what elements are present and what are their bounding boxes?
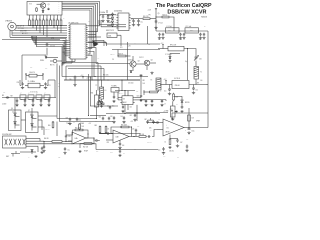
capacitor C26 xyxy=(48,98,50,104)
IC U3 xyxy=(120,96,134,105)
svg-text:T1: T1 xyxy=(200,72,202,74)
capacitor C36 xyxy=(94,138,100,142)
svg-text:C19: C19 xyxy=(3,92,6,94)
svg-text:R45 100K: R45 100K xyxy=(121,124,127,126)
svg-text:1N: 1N xyxy=(115,19,117,21)
svg-text:C55: C55 xyxy=(130,107,133,109)
svg-text:C31 104: C31 104 xyxy=(128,83,133,85)
wire J3 row2 xyxy=(26,140,44,142)
ground G42 xyxy=(162,152,165,155)
capacitor C63 xyxy=(164,85,171,93)
svg-text:2N2222: 2N2222 xyxy=(139,57,144,59)
diode D2 xyxy=(40,56,58,62)
svg-text:C9: C9 xyxy=(112,59,114,61)
svg-text:R31: R31 xyxy=(143,80,146,82)
svg-text:C5 104: C5 104 xyxy=(50,46,55,48)
ground G1 xyxy=(101,20,104,23)
wire U3 left xyxy=(118,92,120,100)
wire to LM386 xyxy=(152,130,157,137)
wire drv h xyxy=(112,49,160,51)
U1 label xyxy=(68,22,78,24)
wire J3 row4 xyxy=(26,146,38,152)
resistor R10 xyxy=(56,15,58,26)
+12V T2 xyxy=(161,43,164,47)
diode D12 xyxy=(31,124,37,128)
wire mid h1 xyxy=(62,63,101,91)
transformer T1 xyxy=(194,61,202,85)
svg-text:100u: 100u xyxy=(192,131,195,133)
wire U1 right A xyxy=(88,20,126,46)
svg-text:1N914: 1N914 xyxy=(40,60,44,62)
svg-text:Q5: Q5 xyxy=(158,13,160,15)
U2 label xyxy=(114,10,122,13)
wire U4B out xyxy=(132,136,139,137)
svg-text:RX: RX xyxy=(2,95,4,97)
J1 pin labels xyxy=(17,24,28,35)
ground G35 xyxy=(192,91,195,94)
svg-text:+8V: +8V xyxy=(97,58,99,60)
svg-text:VOX: VOX xyxy=(29,4,32,6)
svg-text:+12: +12 xyxy=(81,75,84,77)
svg-text:10K: 10K xyxy=(82,126,84,128)
svg-text:Q6: Q6 xyxy=(11,108,13,110)
diode D11 xyxy=(31,115,37,119)
capacitor C50 xyxy=(99,116,105,120)
wire U4A out xyxy=(86,137,95,138)
svg-text:R42 10K: R42 10K xyxy=(83,146,88,148)
title line 3 xyxy=(201,16,207,18)
wire U4A in xyxy=(66,135,72,142)
svg-text:RFC 1mH: RFC 1mH xyxy=(170,44,176,46)
resistor R35 xyxy=(188,115,194,121)
resistor R7 xyxy=(46,15,48,26)
wire J1 row3 xyxy=(15,30,31,32)
capacitor C35 xyxy=(64,147,70,151)
ground G39 xyxy=(187,131,190,134)
svg-text:R47 10K: R47 10K xyxy=(147,142,152,144)
wire bus2 xyxy=(60,121,114,123)
svg-text:+: + xyxy=(185,130,186,132)
svg-text:10u: 10u xyxy=(158,150,160,152)
svg-text:.047: .047 xyxy=(163,156,166,158)
capacitor C43 xyxy=(110,116,115,120)
wire LPF down xyxy=(207,31,209,113)
svg-text:47p: 47p xyxy=(10,95,12,97)
wire J1 drops xyxy=(10,30,12,38)
capacitor C39 xyxy=(119,140,125,147)
svg-text:C35: C35 xyxy=(58,157,61,159)
ground G8 xyxy=(179,37,186,40)
svg-text:DSB/CW XCVR: DSB/CW XCVR xyxy=(167,10,206,16)
svg-text:D15: D15 xyxy=(181,96,184,98)
wire U1 right D xyxy=(88,42,160,44)
capacitor C16 xyxy=(194,56,202,61)
svg-text:+12: +12 xyxy=(161,43,164,45)
wire pot row xyxy=(90,105,118,106)
svg-text:10u: 10u xyxy=(177,157,179,159)
svg-text:10u: 10u xyxy=(112,106,115,108)
ground G33 xyxy=(160,104,163,107)
svg-text:1N: 1N xyxy=(115,15,117,17)
ground G34 xyxy=(168,92,171,95)
svg-text:R40 3K: R40 3K xyxy=(44,138,49,140)
diode D8 xyxy=(130,71,132,73)
svg-text:1K: 1K xyxy=(49,18,51,20)
capacitor C13 xyxy=(158,33,164,41)
svg-text:10K: 10K xyxy=(176,97,178,99)
ground G17 xyxy=(31,104,34,107)
label mid2 xyxy=(103,75,108,77)
ground G15 xyxy=(15,104,18,107)
svg-text:Y6 4MHz: Y6 4MHz xyxy=(111,86,117,88)
resistor R21 xyxy=(162,14,174,31)
title line 2 xyxy=(167,10,206,16)
svg-text:SB: SB xyxy=(58,86,60,88)
diode D9 xyxy=(14,113,20,117)
resistor R5 xyxy=(39,15,41,26)
label mid1 xyxy=(86,77,91,79)
capacitor C62 xyxy=(130,114,137,121)
svg-text:1K: 1K xyxy=(28,18,30,20)
svg-text:560: 560 xyxy=(199,39,201,41)
svg-text:10K: 10K xyxy=(192,118,194,120)
svg-text:100K: 100K xyxy=(110,152,113,154)
svg-text:R48: R48 xyxy=(96,151,99,153)
wire U3 right xyxy=(135,97,145,100)
+12V T5 xyxy=(170,109,173,113)
svg-text:L1 1.1uH: L1 1.1uH xyxy=(166,26,172,28)
wire psu out xyxy=(189,84,208,86)
wire U1 right G xyxy=(88,55,140,80)
capacitor C48 xyxy=(66,117,72,121)
svg-text:1K: 1K xyxy=(56,18,58,20)
svg-text:C16: C16 xyxy=(199,59,202,61)
wire U3 top xyxy=(122,80,128,96)
svg-text:C56: C56 xyxy=(136,91,139,93)
svg-text:10u: 10u xyxy=(68,150,70,152)
svg-text:1K: 1K xyxy=(53,18,55,20)
svg-text:R50: R50 xyxy=(48,125,51,127)
wire filter xyxy=(2,97,56,99)
ground G28 xyxy=(118,146,121,149)
crystal Y3 xyxy=(28,93,34,99)
svg-text:104: 104 xyxy=(146,111,148,113)
svg-text:104: 104 xyxy=(148,104,150,106)
inductor RFC1 xyxy=(168,44,184,50)
resistor R46 xyxy=(138,134,147,138)
svg-text:Q1: Q1 xyxy=(48,4,50,6)
resistor R6 xyxy=(42,15,44,26)
capacitor C33 xyxy=(65,135,71,142)
label rxaf xyxy=(84,150,88,153)
ground G32 xyxy=(144,104,147,107)
svg-text:L2 1.1uH: L2 1.1uH xyxy=(186,26,192,28)
svg-text:T50-2: T50-2 xyxy=(190,30,193,32)
wire J1 row4 xyxy=(12,32,32,34)
wire crow xyxy=(140,100,166,101)
svg-text:U4B: U4B xyxy=(116,136,119,138)
svg-text:C21: C21 xyxy=(48,85,51,87)
svg-text:C69 47u: C69 47u xyxy=(169,151,174,153)
potentiometer R30 xyxy=(91,90,102,119)
title line 1 xyxy=(156,3,212,9)
op-amp U4B xyxy=(113,130,129,143)
svg-text:T50-2: T50-2 xyxy=(168,30,171,32)
svg-text:R44: R44 xyxy=(95,121,98,123)
svg-text:+12: +12 xyxy=(170,109,173,111)
svg-text:MV209: MV209 xyxy=(185,102,190,104)
junction PA xyxy=(155,16,156,17)
label mic xyxy=(44,138,49,140)
wire U1 right B xyxy=(88,20,126,37)
resistor R36 xyxy=(165,139,171,145)
wire Q6 wires xyxy=(14,98,16,129)
svg-text:22p: 22p xyxy=(108,22,110,24)
wire Q7 wires xyxy=(31,108,33,131)
svg-text:78L08: 78L08 xyxy=(175,85,180,87)
crystal Y6 xyxy=(111,86,119,92)
+12V T3 xyxy=(81,75,84,79)
diode D7 xyxy=(169,54,180,59)
svg-text:C36 10u: C36 10u xyxy=(45,129,50,131)
ground G19 xyxy=(47,104,50,107)
wire U1 right F xyxy=(88,51,148,76)
wire drv vert xyxy=(127,42,129,80)
svg-text:X2 X3 X4 X5: X2 X3 X4 X5 xyxy=(30,92,38,94)
svg-text:1N: 1N xyxy=(115,26,117,28)
capacitor C46 xyxy=(148,135,151,138)
ground G24 xyxy=(68,122,71,125)
svg-text:22p: 22p xyxy=(102,21,104,23)
junction mic xyxy=(43,141,66,142)
svg-text:104: 104 xyxy=(122,145,124,147)
crystal Y1 xyxy=(25,81,44,88)
capacitor C21 xyxy=(44,82,50,87)
svg-text:10u: 10u xyxy=(163,111,165,113)
connector J3 xyxy=(3,136,27,148)
svg-text:1N: 1N xyxy=(115,22,117,24)
svg-text:R47: R47 xyxy=(145,119,148,121)
svg-text:TP1: TP1 xyxy=(148,14,151,16)
capacitor C55 xyxy=(121,105,132,112)
svg-text:R22 1K: R22 1K xyxy=(119,53,124,55)
resistor R39 xyxy=(79,123,84,130)
ground G31 xyxy=(139,99,142,102)
resistor R50 xyxy=(48,121,54,129)
signal arrow xyxy=(93,40,99,47)
shield box Q7 xyxy=(26,112,39,133)
svg-text:C40: C40 xyxy=(200,80,203,82)
ground G7 xyxy=(158,37,165,40)
transformer T2 xyxy=(96,80,107,99)
svg-text:C62: C62 xyxy=(130,115,133,117)
svg-text:10K: 10K xyxy=(143,83,145,85)
diode D1 xyxy=(42,11,44,13)
capacitor C32 xyxy=(109,106,115,110)
svg-text:+: + xyxy=(166,125,167,127)
capacitor C12 xyxy=(155,20,163,25)
crystal Y5 xyxy=(44,93,50,99)
wire nest xyxy=(32,36,67,66)
svg-text:Q3: Q3 xyxy=(138,61,140,63)
svg-text:R46 10K: R46 10K xyxy=(139,134,144,136)
wire PA vert xyxy=(155,9,157,31)
svg-text:2N3904: 2N3904 xyxy=(128,60,133,62)
svg-text:1K: 1K xyxy=(60,18,62,20)
wire spk feed xyxy=(188,108,190,129)
ground G27 xyxy=(122,121,125,124)
label spkr xyxy=(196,121,200,123)
label sprinkle xyxy=(3,18,206,159)
transistor Q4 xyxy=(136,60,156,71)
svg-text:C45: C45 xyxy=(137,126,140,128)
wire U5 pwr xyxy=(172,113,189,120)
wire boxes right xyxy=(21,116,57,135)
capacitor C22 xyxy=(16,98,18,104)
junction m1 xyxy=(74,79,92,80)
ground G2 xyxy=(106,20,109,23)
svg-text:C22 104: C22 104 xyxy=(110,54,115,56)
capacitor C67 xyxy=(170,138,183,144)
svg-text:R23: R23 xyxy=(120,47,123,49)
svg-text:Q7: Q7 xyxy=(28,110,30,112)
capacitor C1 xyxy=(47,8,49,10)
bus labels xyxy=(66,122,84,125)
resistor R8 xyxy=(49,15,51,26)
resistor R11 xyxy=(60,15,62,26)
ground G30 xyxy=(112,100,115,103)
capacitor C54 xyxy=(113,92,119,100)
svg-text:10u: 10u xyxy=(73,122,75,124)
svg-text:+12V: +12V xyxy=(130,121,133,123)
capacitor C15 xyxy=(199,33,205,41)
capacitor C25 xyxy=(40,98,42,104)
svg-text:NE602: NE602 xyxy=(123,102,127,104)
inductor L2 xyxy=(185,26,199,33)
shield box Q6 xyxy=(9,110,22,131)
resistor R2 xyxy=(28,15,30,26)
wire nest stub xyxy=(22,48,47,83)
svg-text:C50: C50 xyxy=(99,116,102,118)
wire RFC xyxy=(158,47,196,81)
capacitor C28 xyxy=(41,147,43,151)
wire U1 right C xyxy=(94,40,107,46)
junction j2 xyxy=(136,105,137,121)
ground G37 xyxy=(171,118,174,121)
wire mid stub2 xyxy=(35,40,37,45)
capacitor C53 xyxy=(149,120,155,130)
svg-text:TP3: TP3 xyxy=(45,68,48,70)
diode D13 xyxy=(31,150,33,155)
capacitor C52 xyxy=(145,119,149,124)
svg-text:C43: C43 xyxy=(110,116,113,118)
svg-text:10K: 10K xyxy=(149,128,151,130)
capacitor C10 xyxy=(131,18,135,23)
transistor Q3 xyxy=(130,56,140,71)
oscillator module OSC2 xyxy=(107,33,121,46)
connector J4 xyxy=(6,151,36,158)
+12V T4 xyxy=(164,79,167,83)
capacitor C70 xyxy=(185,145,188,152)
capacitor C64 xyxy=(192,85,198,92)
ground G16 xyxy=(23,104,26,107)
label bypass xyxy=(169,151,174,153)
svg-text:Y: Y xyxy=(45,93,46,95)
svg-text:U6 78L08: U6 78L08 xyxy=(174,78,180,80)
filter label xyxy=(2,95,7,106)
wire filter out xyxy=(54,80,56,98)
svg-text:TP2: TP2 xyxy=(30,67,33,69)
svg-text:C70: C70 xyxy=(186,139,189,141)
svg-text:10u: 10u xyxy=(164,91,166,93)
svg-text:1K: 1K xyxy=(46,18,48,20)
capacitor C5 xyxy=(46,43,55,48)
capacitor C51 xyxy=(108,117,110,121)
capacitor C37 xyxy=(99,132,110,134)
capacitor C11 xyxy=(137,19,143,24)
svg-text:C? 104: C? 104 xyxy=(158,22,163,24)
svg-text:+12V: +12V xyxy=(88,123,91,125)
wire U5 out xyxy=(184,127,189,129)
svg-text:U3: U3 xyxy=(123,99,125,101)
wire DDS to PA xyxy=(148,19,157,44)
svg-text:C38: C38 xyxy=(107,142,110,144)
wire J3 row3 xyxy=(26,144,96,150)
resistor R1 xyxy=(36,4,41,12)
connector J1 label xyxy=(5,20,12,23)
wire bundle B1-U1 xyxy=(62,2,100,55)
svg-text:R25 10K: R25 10K xyxy=(103,75,108,77)
wire bus3 xyxy=(90,116,158,157)
ground G9 xyxy=(199,37,206,40)
ground G41 xyxy=(176,144,179,147)
wire U1 left stubs xyxy=(63,41,69,56)
wire U4B in2 xyxy=(106,140,113,144)
svg-text:TUNE: TUNE xyxy=(165,111,169,113)
svg-text:1K: 1K xyxy=(42,18,44,20)
capacitor C49 xyxy=(76,118,81,122)
ground G23 xyxy=(63,152,66,155)
wire Y1 ends xyxy=(20,80,55,86)
svg-text:560: 560 xyxy=(158,39,160,41)
op-amp U5 xyxy=(163,119,184,136)
capacitor C57b xyxy=(151,100,153,103)
ground G11 xyxy=(139,74,142,77)
capacitor C23 xyxy=(24,98,26,104)
wire pd top xyxy=(64,79,140,80)
svg-text:1K: 1K xyxy=(32,18,34,20)
resistor R44 xyxy=(105,126,109,134)
wire mic verts xyxy=(57,122,66,137)
capacitor C24 xyxy=(32,98,34,104)
cable W1 xyxy=(25,72,44,80)
capacitor C57 xyxy=(145,100,150,106)
wire PA h xyxy=(156,16,162,18)
diode D10 xyxy=(14,122,20,126)
svg-text:C24: C24 xyxy=(148,44,151,46)
wire U5 in- xyxy=(157,129,163,131)
resistor R20 xyxy=(143,16,150,20)
wire left verticals xyxy=(57,63,66,122)
svg-text:104: 104 xyxy=(79,120,81,122)
B1 pin labels xyxy=(29,2,60,14)
label boxes xyxy=(11,108,30,112)
ground G6 xyxy=(154,26,157,29)
wire mid h2 xyxy=(62,69,140,81)
crystal Y2 xyxy=(20,93,26,99)
ground G20 xyxy=(34,155,37,158)
U1 type label xyxy=(106,30,114,32)
